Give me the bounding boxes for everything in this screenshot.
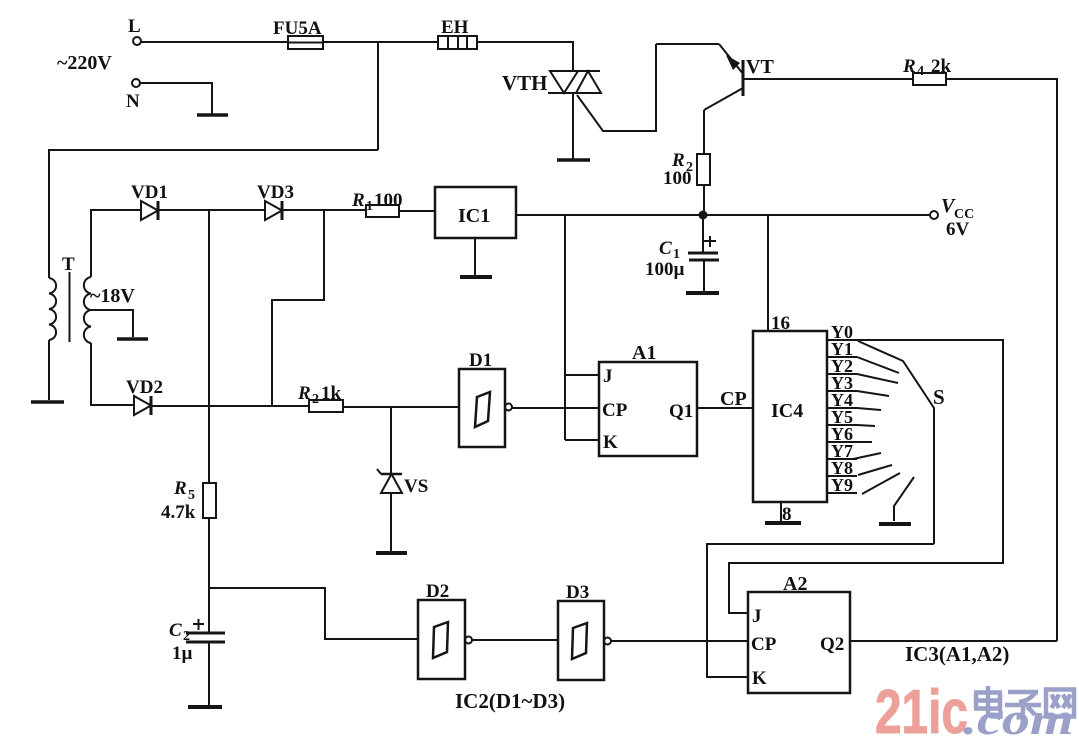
svg-text:EH: EH: [441, 17, 469, 38]
wire VD1 to VD3: [158, 209, 265, 211]
svg-text:6V: 6V: [946, 219, 970, 240]
capacitor C2 1u: [169, 619, 225, 664]
wire K stub: [565, 439, 599, 441]
optocoupler D3: [558, 582, 611, 680]
wire R5 to C2 node: [208, 518, 210, 633]
svg-text:VD2: VD2: [126, 377, 163, 398]
svg-text:R: R: [902, 56, 916, 77]
resistor R1 100: [351, 190, 403, 217]
switch ground arm: [894, 477, 914, 521]
wire Vcc drop to JK: [564, 215, 566, 440]
wire L to fuse: [141, 41, 288, 43]
svg-text:100µ: 100µ: [645, 259, 685, 280]
wire IC1 ground pin: [474, 238, 476, 276]
svg-text:K: K: [752, 668, 767, 689]
rail x209: resistor R5 4.7k: [161, 478, 216, 523]
wire VD3 node step down: [272, 210, 324, 406]
flip-flop A1: [599, 342, 697, 456]
terminal N: [126, 79, 140, 112]
transformer T: [49, 254, 135, 343]
wire C2 node to D2: [209, 588, 418, 639]
wire zener branch: [390, 407, 392, 474]
wire R2 to Vcc node: [703, 185, 705, 215]
rectified rail x209: [208, 210, 210, 483]
wire mains left rail: [49, 150, 378, 278]
switch S contacts: [853, 357, 900, 494]
svg-text:Q2: Q2: [820, 634, 844, 655]
svg-text:21ic: 21ic: [875, 677, 968, 736]
ground triac: [557, 158, 590, 162]
secondary winding: [84, 277, 91, 343]
wire VS to ground: [390, 493, 392, 551]
svg-text:VT: VT: [746, 56, 774, 78]
wire primary bottom: [48, 340, 50, 400]
wire gate rail to VT emitter: [656, 43, 719, 45]
ground IC1: [460, 275, 492, 279]
resistor R4 2k: [902, 56, 952, 85]
svg-text:A2: A2: [783, 573, 807, 595]
svg-text:VD1: VD1: [131, 182, 168, 203]
ground switch: [879, 522, 911, 526]
wire EH to triac: [477, 42, 573, 71]
svg-text:1: 1: [366, 199, 373, 214]
IC IC1: [435, 187, 516, 238]
svg-text:C: C: [659, 238, 672, 259]
svg-text:J: J: [752, 606, 762, 627]
svg-text:5: 5: [188, 488, 195, 503]
svg-text:T: T: [62, 254, 75, 275]
wire D2 to D3: [472, 639, 558, 641]
wire IC4 pin8: [780, 502, 782, 522]
wire R1 to IC1: [399, 210, 435, 212]
IC4 output stubs Y0-Y9: [827, 340, 857, 493]
resistor R2 100: [663, 150, 710, 189]
triac VTH: [502, 71, 601, 95]
optocoupler D1: [459, 350, 512, 447]
wire triac anode2 to ground: [572, 93, 574, 159]
svg-text:Y9: Y9: [831, 475, 853, 495]
svg-text:D2: D2: [426, 581, 449, 602]
wire secondary bottom to VD2: [91, 343, 134, 405]
wire secondary top to VD1: [91, 210, 141, 277]
IC IC4: [753, 331, 827, 502]
watermark .com: [963, 694, 1074, 736]
wire VD3 to R1: [282, 209, 366, 211]
transistor VT: [704, 44, 774, 110]
svg-text:~220V: ~220V: [57, 52, 112, 74]
svg-text:2: 2: [183, 629, 190, 644]
svg-text:VTH: VTH: [502, 71, 548, 95]
ground C1: [686, 291, 719, 295]
ground center tap: [117, 337, 148, 341]
svg-text:CP: CP: [720, 388, 747, 410]
ground VS: [376, 551, 407, 555]
wire C1 to ground: [703, 260, 705, 292]
wire Q2 to right rail: [850, 640, 1057, 642]
wire N stub: [140, 83, 212, 114]
wire Q1 to IC4 CP: [697, 407, 753, 409]
svg-text:CP: CP: [751, 634, 777, 655]
svg-text:2: 2: [312, 392, 319, 407]
fuse FU5A: [273, 18, 323, 49]
wire triac gate: [577, 44, 656, 131]
svg-text:Q1: Q1: [669, 401, 693, 422]
resistor R2 1k: [297, 383, 343, 412]
svg-text:R: R: [297, 383, 311, 404]
wire J stub: [565, 374, 599, 376]
svg-text:IC4: IC4: [771, 400, 803, 422]
svg-text:R: R: [351, 190, 365, 211]
wire D1 out to A1 CP: [512, 407, 599, 409]
svg-text:1k: 1k: [321, 383, 342, 404]
svg-text:S: S: [933, 385, 945, 409]
wire D3 to A2 CP: [611, 640, 748, 642]
junction Vcc node: [699, 211, 708, 220]
svg-text:R: R: [173, 478, 187, 499]
svg-text:4: 4: [917, 64, 924, 79]
svg-text:D1: D1: [469, 350, 492, 371]
svg-text:IC3(A1,A2): IC3(A1,A2): [905, 642, 1009, 666]
svg-text:1µ: 1µ: [172, 643, 193, 664]
watermark 21ic: [875, 677, 968, 736]
wire VT collector to R2: [703, 110, 705, 154]
wire Y0 net to A2 J: [729, 340, 1003, 613]
svg-text:4.7k: 4.7k: [161, 502, 196, 523]
svg-text:A1: A1: [632, 342, 656, 364]
svg-text:VS: VS: [404, 476, 428, 497]
terminal L: [128, 16, 141, 45]
watermark 电子网: [974, 686, 1074, 718]
wire center tap: [91, 310, 133, 337]
wire fuse to EH: [323, 41, 438, 43]
svg-text:J: J: [603, 366, 613, 387]
labels Y0-Y9: [831, 322, 853, 495]
primary winding: [49, 278, 56, 340]
ground C2: [188, 705, 222, 709]
node at x378 top rail: [377, 42, 379, 150]
wire VD2 to R2k: [151, 405, 309, 407]
svg-text:2k: 2k: [931, 56, 952, 77]
switch S wiper from Y0: [858, 341, 934, 544]
terminal Vcc 6V: [930, 195, 974, 240]
wire R4 to right rail: [946, 79, 1057, 641]
ground IC4: [765, 521, 801, 525]
wire IC4 pin16: [767, 215, 769, 331]
core: [69, 272, 71, 342]
svg-text:IC1: IC1: [458, 205, 490, 227]
svg-text:L: L: [128, 16, 141, 37]
optocoupler D2: [418, 581, 472, 679]
svg-text:100: 100: [374, 190, 403, 211]
wire Vcc rail: [516, 214, 930, 216]
primary end bar: [31, 400, 64, 404]
wire C2 to ground: [208, 642, 210, 706]
diode VD2: [126, 377, 163, 415]
svg-text:100: 100: [663, 168, 692, 189]
svg-text:CP: CP: [602, 400, 628, 421]
diode VD3: [257, 182, 294, 220]
flip-flop A2: [748, 573, 850, 693]
N end bar: [197, 113, 228, 117]
svg-text:~18V: ~18V: [90, 285, 135, 307]
svg-text:D3: D3: [566, 582, 589, 603]
svg-text:VD3: VD3: [257, 182, 294, 203]
heater EH: [438, 17, 477, 49]
wire VT base to R4: [744, 78, 913, 80]
wire R2 1k to D1: [343, 406, 459, 408]
zener VS: [377, 469, 428, 497]
svg-text:FU5A: FU5A: [273, 18, 322, 39]
wire wiper net to A2 K: [707, 544, 934, 677]
svg-text:IC2(D1~D3): IC2(D1~D3): [455, 689, 565, 713]
svg-text:K: K: [603, 432, 618, 453]
svg-text:N: N: [126, 91, 140, 112]
diode VD1: [131, 182, 168, 220]
capacitor C1 100u: [645, 218, 719, 280]
svg-text:C: C: [169, 620, 182, 641]
